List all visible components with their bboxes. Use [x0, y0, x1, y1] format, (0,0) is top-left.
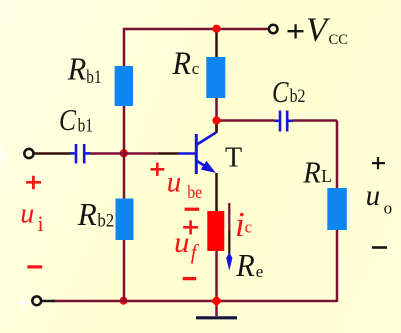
- svg-text:R: R: [67, 50, 87, 86]
- svg-text:c: c: [192, 59, 200, 78]
- svg-text:C: C: [59, 102, 76, 137]
- svg-text:R: R: [302, 155, 320, 190]
- svg-text:b2: b2: [97, 210, 114, 231]
- svg-text:be: be: [187, 182, 202, 202]
- svg-text:R: R: [172, 46, 191, 82]
- svg-text:b1: b1: [86, 67, 101, 88]
- svg-text:R: R: [235, 247, 255, 283]
- svg-text:b1: b1: [78, 115, 93, 136]
- svg-text:R: R: [77, 196, 97, 232]
- svg-text:o: o: [384, 199, 393, 218]
- svg-text:V: V: [306, 12, 331, 49]
- svg-text:CC: CC: [329, 32, 349, 48]
- svg-text:i: i: [38, 211, 44, 236]
- svg-text:i: i: [235, 205, 245, 244]
- svg-text:u: u: [174, 226, 190, 259]
- svg-text:T: T: [225, 143, 242, 174]
- svg-text:u: u: [20, 198, 34, 229]
- svg-text:C: C: [272, 74, 289, 109]
- svg-text:b2: b2: [290, 86, 306, 107]
- svg-text:c: c: [245, 217, 253, 236]
- svg-text:u: u: [366, 179, 381, 212]
- svg-text:L: L: [321, 166, 332, 186]
- svg-text:u: u: [167, 166, 182, 199]
- svg-text:f: f: [191, 240, 200, 264]
- svg-text:e: e: [256, 262, 264, 281]
